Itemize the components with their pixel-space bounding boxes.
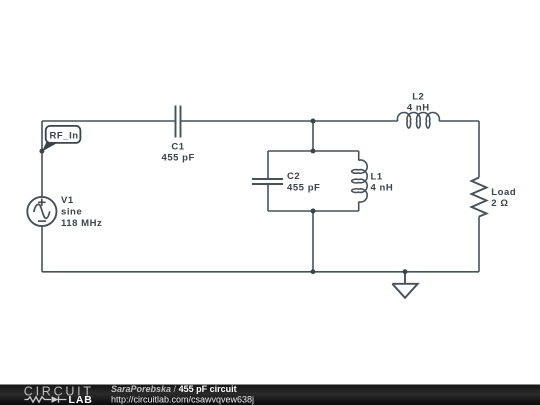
svg-text:118 MHz: 118 MHz <box>61 218 102 229</box>
svg-text:455 pF: 455 pF <box>161 153 194 164</box>
resistor Load zigzag <box>472 178 487 217</box>
capacitor C2 plates <box>252 179 283 184</box>
wire tank feed upper (node to tank top) <box>312 121 314 151</box>
wire left vertical upper (RF_In node to V1) <box>41 121 43 197</box>
wire top rail left of C1 <box>42 120 176 122</box>
node junction dot tank top <box>311 149 316 154</box>
svg-text:LAB: LAB <box>69 394 93 405</box>
svg-text:4 nH: 4 nH <box>371 183 394 194</box>
footer bar <box>0 385 540 405</box>
svg-text:SaraPorebska / 455 pF circuit: SaraPorebska / 455 pF circuit <box>111 384 237 394</box>
flag RF_In pointer <box>42 142 60 152</box>
wire bottom rail <box>42 271 479 273</box>
wire tank right branch upper (to L1) <box>358 151 360 160</box>
wire top rail C1 to L2 <box>181 120 398 122</box>
wire right vertical upper (to Load) <box>478 121 480 178</box>
wire left vertical lower (V1 to bottom rail) <box>41 226 43 272</box>
source V1 circle <box>27 197 56 226</box>
wire tank right branch lower (L1 to bottom) <box>358 202 360 211</box>
node junction dot top tank feed <box>311 119 316 124</box>
wire right vertical lower (Load to bottom rail) <box>478 217 480 272</box>
wire tank drain (tank bottom to bottom rail) <box>312 211 314 272</box>
wire top rail right of L2 <box>439 120 479 122</box>
svg-text:http://circuitlab.com/csawvqve: http://circuitlab.com/csawvqvew638j <box>111 394 254 404</box>
source V1 minus sign <box>38 220 46 222</box>
svg-text:C1: C1 <box>171 141 184 152</box>
svg-text:L1: L1 <box>371 171 383 182</box>
wire tank left branch lower (C2 to bottom) <box>267 184 269 211</box>
svg-text:RF_In: RF_In <box>50 131 79 142</box>
flag RF_In box <box>46 126 81 143</box>
wire tank top rail <box>268 150 359 152</box>
svg-text:sine: sine <box>61 206 82 217</box>
svg-text:V1: V1 <box>61 195 74 206</box>
svg-text:455 pF: 455 pF <box>287 182 320 193</box>
wire tank bottom rail <box>268 210 359 212</box>
svg-text:2 Ω: 2 Ω <box>491 198 508 209</box>
svg-text:4 nH: 4 nH <box>407 103 430 114</box>
inductor L1 coil <box>352 160 368 202</box>
source V1 plus sign <box>38 199 46 206</box>
capacitor C1 plates <box>176 106 181 138</box>
node junction dot tank bottom <box>311 209 316 214</box>
wire tank left branch upper (to C2) <box>267 151 269 179</box>
svg-text:C2: C2 <box>287 171 300 182</box>
svg-text:L2: L2 <box>412 91 424 102</box>
footer logo resistor-diode glyph <box>25 396 67 402</box>
svg-text:Load: Load <box>491 187 516 198</box>
source V1 sine glyph <box>34 204 50 218</box>
node junction dot bottom rail tank <box>311 269 316 274</box>
ground symbol <box>392 272 417 298</box>
node junction dot ground <box>403 269 408 274</box>
inductor L2 coil <box>397 112 439 128</box>
node junction dot RF_In <box>39 149 44 154</box>
